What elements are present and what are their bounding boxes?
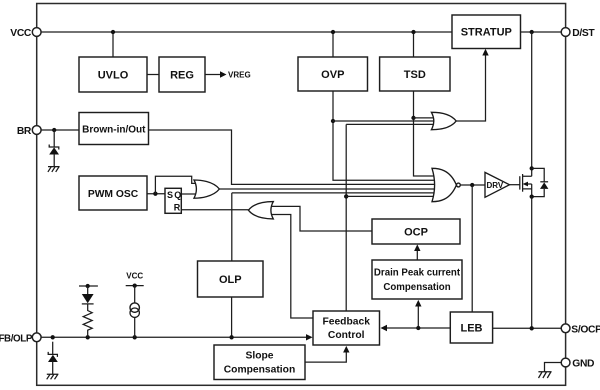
wire feedback net to bundle line: [346, 195, 438, 197]
block Brown-in/Out: [79, 113, 149, 145]
block Feedback Control: [313, 311, 380, 345]
wire G2 lower input from Feedback Control: [266, 215, 313, 319]
node junction drain-diode: [530, 166, 534, 170]
node junction source rail: [530, 326, 534, 330]
block STRATUP: [452, 15, 521, 49]
svg-text:OLP: OLP: [219, 274, 242, 286]
or-gate G2 reset (points left): [248, 202, 273, 219]
wire feedback net vertical: [346, 124, 437, 311]
block LEB: [450, 312, 492, 343]
svg-text:R: R: [174, 203, 181, 213]
node junction OVP net: [331, 119, 335, 123]
wire Slope Compensation to Feedback Control arrow: [305, 352, 346, 363]
wire STRATUP to D/ST pin: [521, 31, 562, 33]
svg-text:DRV: DRV: [487, 181, 504, 190]
transistor Q1 power MOSFET: [519, 176, 521, 189]
wire LEB to S/OCP rail: [493, 327, 562, 329]
wire G2 upper input from OCP: [266, 206, 372, 231]
buffer DRV: [485, 172, 510, 197]
svg-text:VCC: VCC: [10, 28, 32, 39]
svg-text:Feedback: Feedback: [322, 317, 370, 328]
resistor R1: [83, 304, 92, 338]
svg-text:Compensation: Compensation: [224, 365, 296, 376]
wire BR to Brown-in/Out: [41, 129, 79, 131]
ground at GND pin: [538, 372, 551, 378]
wire OVP vertical to gates: [333, 91, 438, 180]
wire latch Q to OR gate: [181, 193, 201, 195]
svg-text:VREG: VREG: [228, 71, 251, 80]
wire DPCC to OCP arrow: [416, 250, 418, 260]
pin FB/OLP: [32, 333, 41, 342]
wire drain from D/ST node: [531, 32, 533, 176]
diode zener D1 at BR: [49, 145, 59, 150]
node junction FB current source: [133, 335, 137, 339]
node junction FB zener: [51, 335, 55, 339]
svg-text:D/ST: D/ST: [572, 28, 595, 39]
wire G3 output to STRATUP: [456, 55, 485, 122]
wire TSD supply drop: [413, 32, 415, 57]
svg-text:STRATUP: STRATUP: [461, 27, 512, 39]
svg-text:GND: GND: [572, 359, 594, 370]
block Drain Peak current Compensation: [372, 260, 462, 299]
node junction VCC-UVLO: [111, 30, 115, 34]
or-gate G1 pwm output: [194, 180, 219, 198]
wire OSC to OR gate top input: [155, 176, 200, 193]
wire BR zener lead: [53, 130, 55, 147]
wire TSD vertical to gates: [414, 91, 439, 176]
wire gate drive to LEB: [471, 185, 473, 312]
wire OLP bottom to FB rail: [231, 297, 233, 337]
nor-gate G4 driver: [432, 168, 456, 201]
wire UVLO to REG: [147, 74, 159, 76]
node junction BR: [52, 128, 56, 132]
svg-text:FB/OLP: FB/OLP: [0, 333, 33, 344]
svg-text:REG: REG: [170, 70, 194, 82]
wire VCC rail: [41, 31, 452, 33]
wire OLP top to bundle line: [232, 193, 438, 261]
pin GND: [561, 358, 570, 367]
block TSD: [380, 57, 450, 91]
node junction VCC-OVP: [331, 30, 335, 34]
wire LEB output to Feedback Control arrow: [386, 327, 450, 329]
wire latch R line: [181, 209, 248, 211]
terminal internal pull-up bar: [79, 285, 98, 287]
node junction TSD net: [411, 116, 415, 120]
svg-text:Control: Control: [328, 330, 365, 341]
diode D4 pull-up: [87, 286, 89, 294]
svg-text:VCC: VCC: [126, 272, 143, 281]
svg-text:S/OCP: S/OCP: [571, 324, 600, 335]
node junction FB resistor: [86, 335, 90, 339]
wire G1 output bundle line: [219, 188, 438, 190]
svg-text:LEB: LEB: [461, 323, 483, 335]
block OCP: [372, 219, 460, 244]
node junction OSC: [153, 192, 157, 196]
diode zener D2 at FB/OLP: [52, 342, 54, 355]
svg-text:S: S: [167, 190, 173, 200]
node junction VCC-TSD: [411, 30, 415, 34]
wire PWM OSC to latch S: [147, 193, 165, 195]
node junction source-diode: [530, 194, 534, 198]
pin BR: [32, 126, 41, 135]
wire TSD to or-gate G3 input: [414, 117, 438, 119]
wire FB/OLP rail to Feedback Control: [41, 336, 307, 338]
node junction LEB net: [416, 326, 420, 330]
wire UVLO supply drop: [112, 32, 114, 57]
svg-text:Drain Peak current: Drain Peak current: [374, 268, 461, 279]
or-gate G3 startup control: [431, 112, 456, 129]
ground at FB/OLP: [47, 374, 59, 379]
node junction gate drive: [470, 183, 474, 187]
wire LEB net to DPCC arrow: [417, 306, 419, 329]
wire OVP supply drop: [332, 32, 334, 57]
wire source down to S/OCP rail: [531, 197, 533, 329]
block UVLO: [79, 57, 147, 92]
pin VCC: [32, 28, 41, 37]
ground at BR: [48, 167, 60, 172]
svg-text:Slope: Slope: [245, 351, 273, 362]
svg-text:PWM OSC: PWM OSC: [88, 189, 139, 200]
wire G4 to DRV: [460, 184, 485, 186]
current source I1: [134, 286, 136, 303]
pin D/ST: [561, 28, 570, 37]
svg-text:Compensation: Compensation: [383, 282, 450, 293]
block PWM OSC: [79, 176, 147, 210]
block Slope Compensation: [214, 345, 305, 380]
wire REG output arrow: [205, 74, 220, 76]
svg-text:TSD: TSD: [404, 69, 426, 81]
svg-text:Brown-in/Out: Brown-in/Out: [82, 125, 146, 136]
wire GND to ground: [545, 363, 562, 372]
node junction FB OLP: [229, 335, 233, 339]
node junction feedback net: [344, 194, 348, 198]
block OLP: [198, 261, 264, 297]
svg-text:Q: Q: [174, 190, 181, 200]
svg-text:OCP: OCP: [404, 227, 428, 239]
svg-text:UVLO: UVLO: [98, 70, 129, 82]
latch U2 SR flip-flop: [165, 188, 181, 213]
svg-text:BR: BR: [17, 126, 32, 137]
wire OVP to or-gate G3 input: [333, 120, 437, 122]
block REG: [159, 57, 205, 92]
block OVP: [298, 57, 368, 91]
terminal VCC bar: [126, 285, 144, 287]
wire Brown-in/Out output to bundle: [149, 130, 439, 184]
diode body D3: [532, 168, 545, 196]
bubble G4 output inverter: [457, 183, 461, 187]
wire DRV to MOSFET gate: [510, 184, 520, 186]
node junction drain net: [530, 30, 534, 34]
svg-text:OVP: OVP: [321, 69, 344, 81]
pin S/OCP: [561, 324, 570, 333]
